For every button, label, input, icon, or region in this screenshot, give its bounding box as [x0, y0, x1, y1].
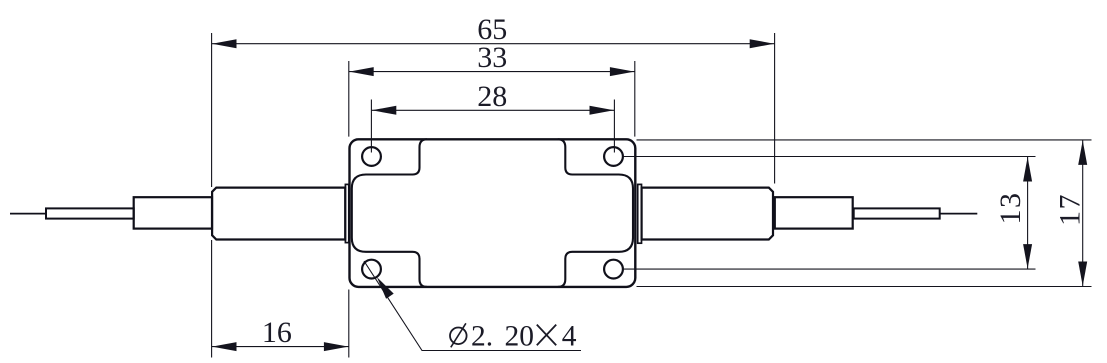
right boot tube: [775, 197, 853, 228]
right snout cylinder: [642, 188, 773, 240]
left collar: [345, 184, 348, 242]
dimension line 17: [1082, 140, 1084, 287]
arrowhead 13 top: [1023, 157, 1032, 182]
arrowhead 33 left: [349, 67, 374, 76]
dimension line 28: [371, 109, 614, 111]
leader line hole callout: [364, 261, 581, 351]
mounting hole bottom-right: [604, 260, 623, 279]
body inner step contour left: [352, 139, 427, 287]
extension line left snout end: [211, 33, 213, 358]
extension line right snout end: [774, 33, 776, 184]
extension line body bottom right: [637, 286, 1092, 288]
dimension line 13: [1027, 157, 1029, 270]
arrowhead 28 right: [590, 106, 615, 115]
left loose tube: [46, 208, 134, 218]
right fiber: [940, 213, 978, 215]
left fiber: [10, 213, 46, 215]
mounting hole bottom-left: [362, 260, 381, 279]
dimension line 33: [349, 71, 635, 73]
hole callout multiply symbol: [537, 325, 556, 346]
extension line hole left: [370, 100, 372, 153]
body outline: [350, 139, 636, 287]
extension line body right edge: [634, 61, 636, 137]
arrowhead 16 left: [212, 342, 237, 351]
leader line from top-right hole: [623, 156, 1036, 158]
svg-text:28: 28: [477, 80, 507, 113]
svg-text:33: 33: [477, 41, 507, 74]
mounting hole top-right: [604, 147, 623, 166]
arrowhead hole leader: [377, 277, 394, 299]
arrowhead 28 left: [372, 106, 397, 115]
svg-text:2.: 2.: [471, 320, 493, 352]
dimension line 65: [212, 43, 775, 45]
svg-text:20: 20: [505, 320, 535, 352]
left boot tube: [134, 197, 212, 228]
hole callout diameter symbol: [450, 328, 467, 345]
arrowhead 16 right: [324, 342, 349, 351]
extension line body left edge: [348, 61, 350, 358]
arrowhead 17 top: [1078, 140, 1087, 165]
right loose tube: [854, 208, 940, 218]
arrowhead 65 right: [750, 39, 775, 48]
arrowhead 33 right: [610, 67, 635, 76]
left snout cylinder: [212, 188, 345, 240]
mounting hole top-left: [362, 147, 381, 166]
svg-text:16: 16: [262, 316, 292, 349]
svg-text:4: 4: [562, 320, 577, 352]
dimension line 16: [212, 346, 349, 348]
arrowhead 17 bottom: [1078, 262, 1087, 287]
arrowhead 65 left: [212, 39, 237, 48]
svg-text:17: 17: [1054, 193, 1087, 226]
hole callout text: [471, 320, 577, 352]
extension line body top right: [637, 139, 1092, 141]
leader line from bottom-right hole: [623, 268, 1036, 270]
arrowhead 13 bottom: [1023, 244, 1032, 269]
body inner step contour right: [558, 139, 633, 287]
right collar: [638, 184, 642, 243]
svg-text:13: 13: [994, 192, 1027, 225]
extension line hole right: [613, 100, 615, 153]
